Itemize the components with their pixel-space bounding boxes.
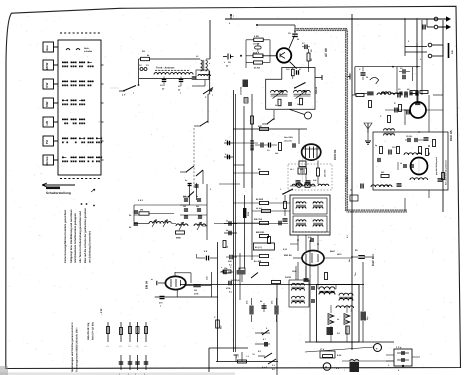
- svg-text:Bias auf die Lötseite der gedr: Bias auf die Lötseite der gedruckten ges…: [84, 208, 87, 263]
- svg-text:Spannungen und Ströme gemessen: Spannungen und Ströme gemessen bei U: [71, 322, 74, 372]
- svg-text:Alle Taster in Ruhestellung ge: Alle Taster in Ruhestellung gezeichnet u…: [79, 211, 82, 263]
- svg-text:R2: R2: [407, 88, 409, 91]
- svg-text:220: 220: [381, 171, 384, 174]
- svg-text:2 3: 2 3: [272, 364, 275, 367]
- svg-text:Netz-: Netz-: [84, 47, 90, 50]
- svg-text:MW: MW: [45, 101, 49, 106]
- svg-text:C9 C11: C9 C11: [406, 135, 412, 138]
- svg-text:680 R21: 680 R21: [256, 231, 265, 234]
- svg-text:EM 84: EM 84: [145, 280, 149, 289]
- svg-text:Stillgelegt bzw. Rückführung u: Stillgelegt bzw. Rückführung und Anschlu…: [70, 209, 73, 263]
- svg-text:44 ( 2 ): 44 ( 2 ): [255, 246, 262, 249]
- svg-text:Dr C6: Dr C6: [254, 43, 261, 46]
- svg-text:m: m: [151, 278, 153, 281]
- svg-text:Aus: Aus: [45, 45, 49, 51]
- svg-text:6k8: 6k8: [183, 195, 186, 198]
- svg-text:4 K6: 4 K6: [254, 35, 259, 38]
- svg-text:KW: KW: [45, 83, 49, 88]
- svg-text:RATIO: RATIO: [285, 276, 292, 279]
- svg-text:UKW(FM): UKW(FM): [240, 87, 243, 95]
- svg-text:schalter: schalter: [84, 50, 93, 53]
- svg-text:0,1 460: 0,1 460: [346, 176, 349, 182]
- svg-text:460 10%: 460 10%: [324, 169, 327, 177]
- svg-text:ECH 81: ECH 81: [333, 149, 337, 160]
- svg-text:0,1: 0,1: [225, 139, 228, 142]
- svg-text:NF/V: NF/V: [337, 253, 342, 256]
- svg-text:C2: C2: [398, 88, 400, 91]
- svg-text:1M: 1M: [140, 209, 143, 212]
- svg-text:Ferrit - Antenne: Ferrit - Antenne: [156, 67, 175, 70]
- svg-text:17 A: 17 A: [320, 348, 325, 351]
- svg-text:geprüft DIN/Reg wird: geprüft DIN/Reg wird: [435, 157, 438, 175]
- svg-text:MW/LW: MW/LW: [315, 87, 318, 94]
- svg-text:49,5 F: 49,5 F: [253, 52, 260, 55]
- svg-text:C13: C13: [392, 146, 395, 149]
- svg-text:EAF 801: EAF 801: [371, 254, 375, 266]
- svg-text:Tr: Tr: [376, 347, 378, 350]
- svg-text:ten Schaltung (Unterseite): ten Schaltung (Unterseite): [89, 231, 92, 263]
- svg-text:Keine herausgeführten Kontakte: Keine herausgeführten Kontakte gezeichne…: [64, 210, 67, 263]
- svg-text:LW: LW: [45, 121, 49, 126]
- svg-text:Uosz 6V: Uosz 6V: [284, 140, 292, 143]
- svg-text:R7: R7: [299, 68, 301, 71]
- svg-text:Gleichlaufende Schaltkontakte: Gleichlaufende Schaltkontakte gekuppelt: [74, 213, 77, 263]
- svg-text:UKW: UKW: [45, 62, 49, 69]
- svg-text:1M: 1M: [194, 289, 197, 292]
- svg-text:Bei UKW-Betrieb gemessen: Bei UKW-Betrieb gemessen: [445, 159, 448, 185]
- svg-text:ECC 85: ECC 85: [449, 130, 453, 141]
- svg-text:C72: C72: [350, 309, 353, 312]
- svg-text:500k: 500k: [176, 237, 182, 240]
- svg-text:C5: C5: [400, 67, 402, 70]
- svg-text:C12: C12: [286, 68, 289, 71]
- svg-text:AF 89: AF 89: [324, 48, 328, 57]
- svg-text:6k R22: 6k R22: [256, 198, 264, 201]
- svg-text:7 *: 7 *: [236, 356, 239, 359]
- svg-text:R8: R8: [428, 153, 431, 155]
- svg-text:M: M: [325, 366, 327, 369]
- svg-text:6BA7: 6BA7: [330, 250, 336, 253]
- svg-text:MHz: MHz: [313, 201, 317, 204]
- svg-text:10,7: 10,7: [290, 168, 294, 171]
- svg-text:Stereo: Stereo: [45, 156, 49, 166]
- svg-text:90k 7k0: 90k 7k0: [254, 218, 263, 221]
- svg-text:50 150: 50 150: [256, 207, 262, 210]
- svg-text:Abb./Pk NF-Vtg: Abb./Pk NF-Vtg: [87, 322, 90, 340]
- svg-text:Schalterstellung: Schalterstellung: [46, 191, 71, 195]
- svg-text:Osz./10%: Osz./10%: [284, 136, 293, 139]
- svg-text:6 9: 6 9: [272, 368, 275, 371]
- svg-text:C41: C41: [313, 179, 316, 182]
- svg-text:~ 2 W: ~ 2 W: [100, 308, 103, 315]
- svg-text:Rel=37+-Q7 kHz: Rel=37+-Q7 kHz: [92, 321, 95, 340]
- svg-text:EBF 89: EBF 89: [284, 254, 292, 257]
- svg-text:0,1: 0,1: [225, 153, 228, 156]
- svg-text:460: 460: [300, 168, 303, 171]
- svg-text:1 C p: 1 C p: [396, 346, 402, 349]
- svg-text:Toleranzgrenzen 600/0/1 Betri: Toleranzgrenzen 600/0/1 Betrieb 300 l: [76, 327, 79, 372]
- svg-text:5 +-2: 5 +-2: [262, 366, 268, 369]
- svg-text:1k2: 1k2: [297, 103, 300, 106]
- svg-text:2 k 2: 2 k 2: [138, 199, 144, 202]
- svg-text:1k0: 1k0: [275, 152, 278, 155]
- svg-text:B+ 260: B+ 260: [254, 260, 262, 263]
- svg-text:2 V: 2 V: [122, 94, 126, 97]
- svg-text:PU: PU: [45, 140, 49, 144]
- svg-text:4k K6: 4k K6: [254, 67, 261, 70]
